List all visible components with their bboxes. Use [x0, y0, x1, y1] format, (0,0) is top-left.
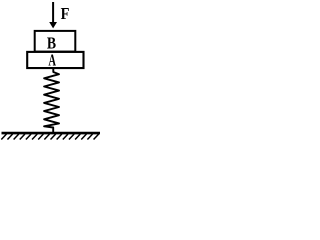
svg-text:F: F — [61, 4, 70, 23]
spring — [44, 69, 59, 134]
block A — [27, 52, 83, 68]
block B — [35, 31, 76, 52]
svg-text:A: A — [48, 51, 56, 70]
force arrow F shaft — [52, 2, 54, 23]
ground hatching — [1, 134, 98, 140]
force arrow F head — [49, 22, 57, 28]
ground line — [2, 132, 101, 135]
